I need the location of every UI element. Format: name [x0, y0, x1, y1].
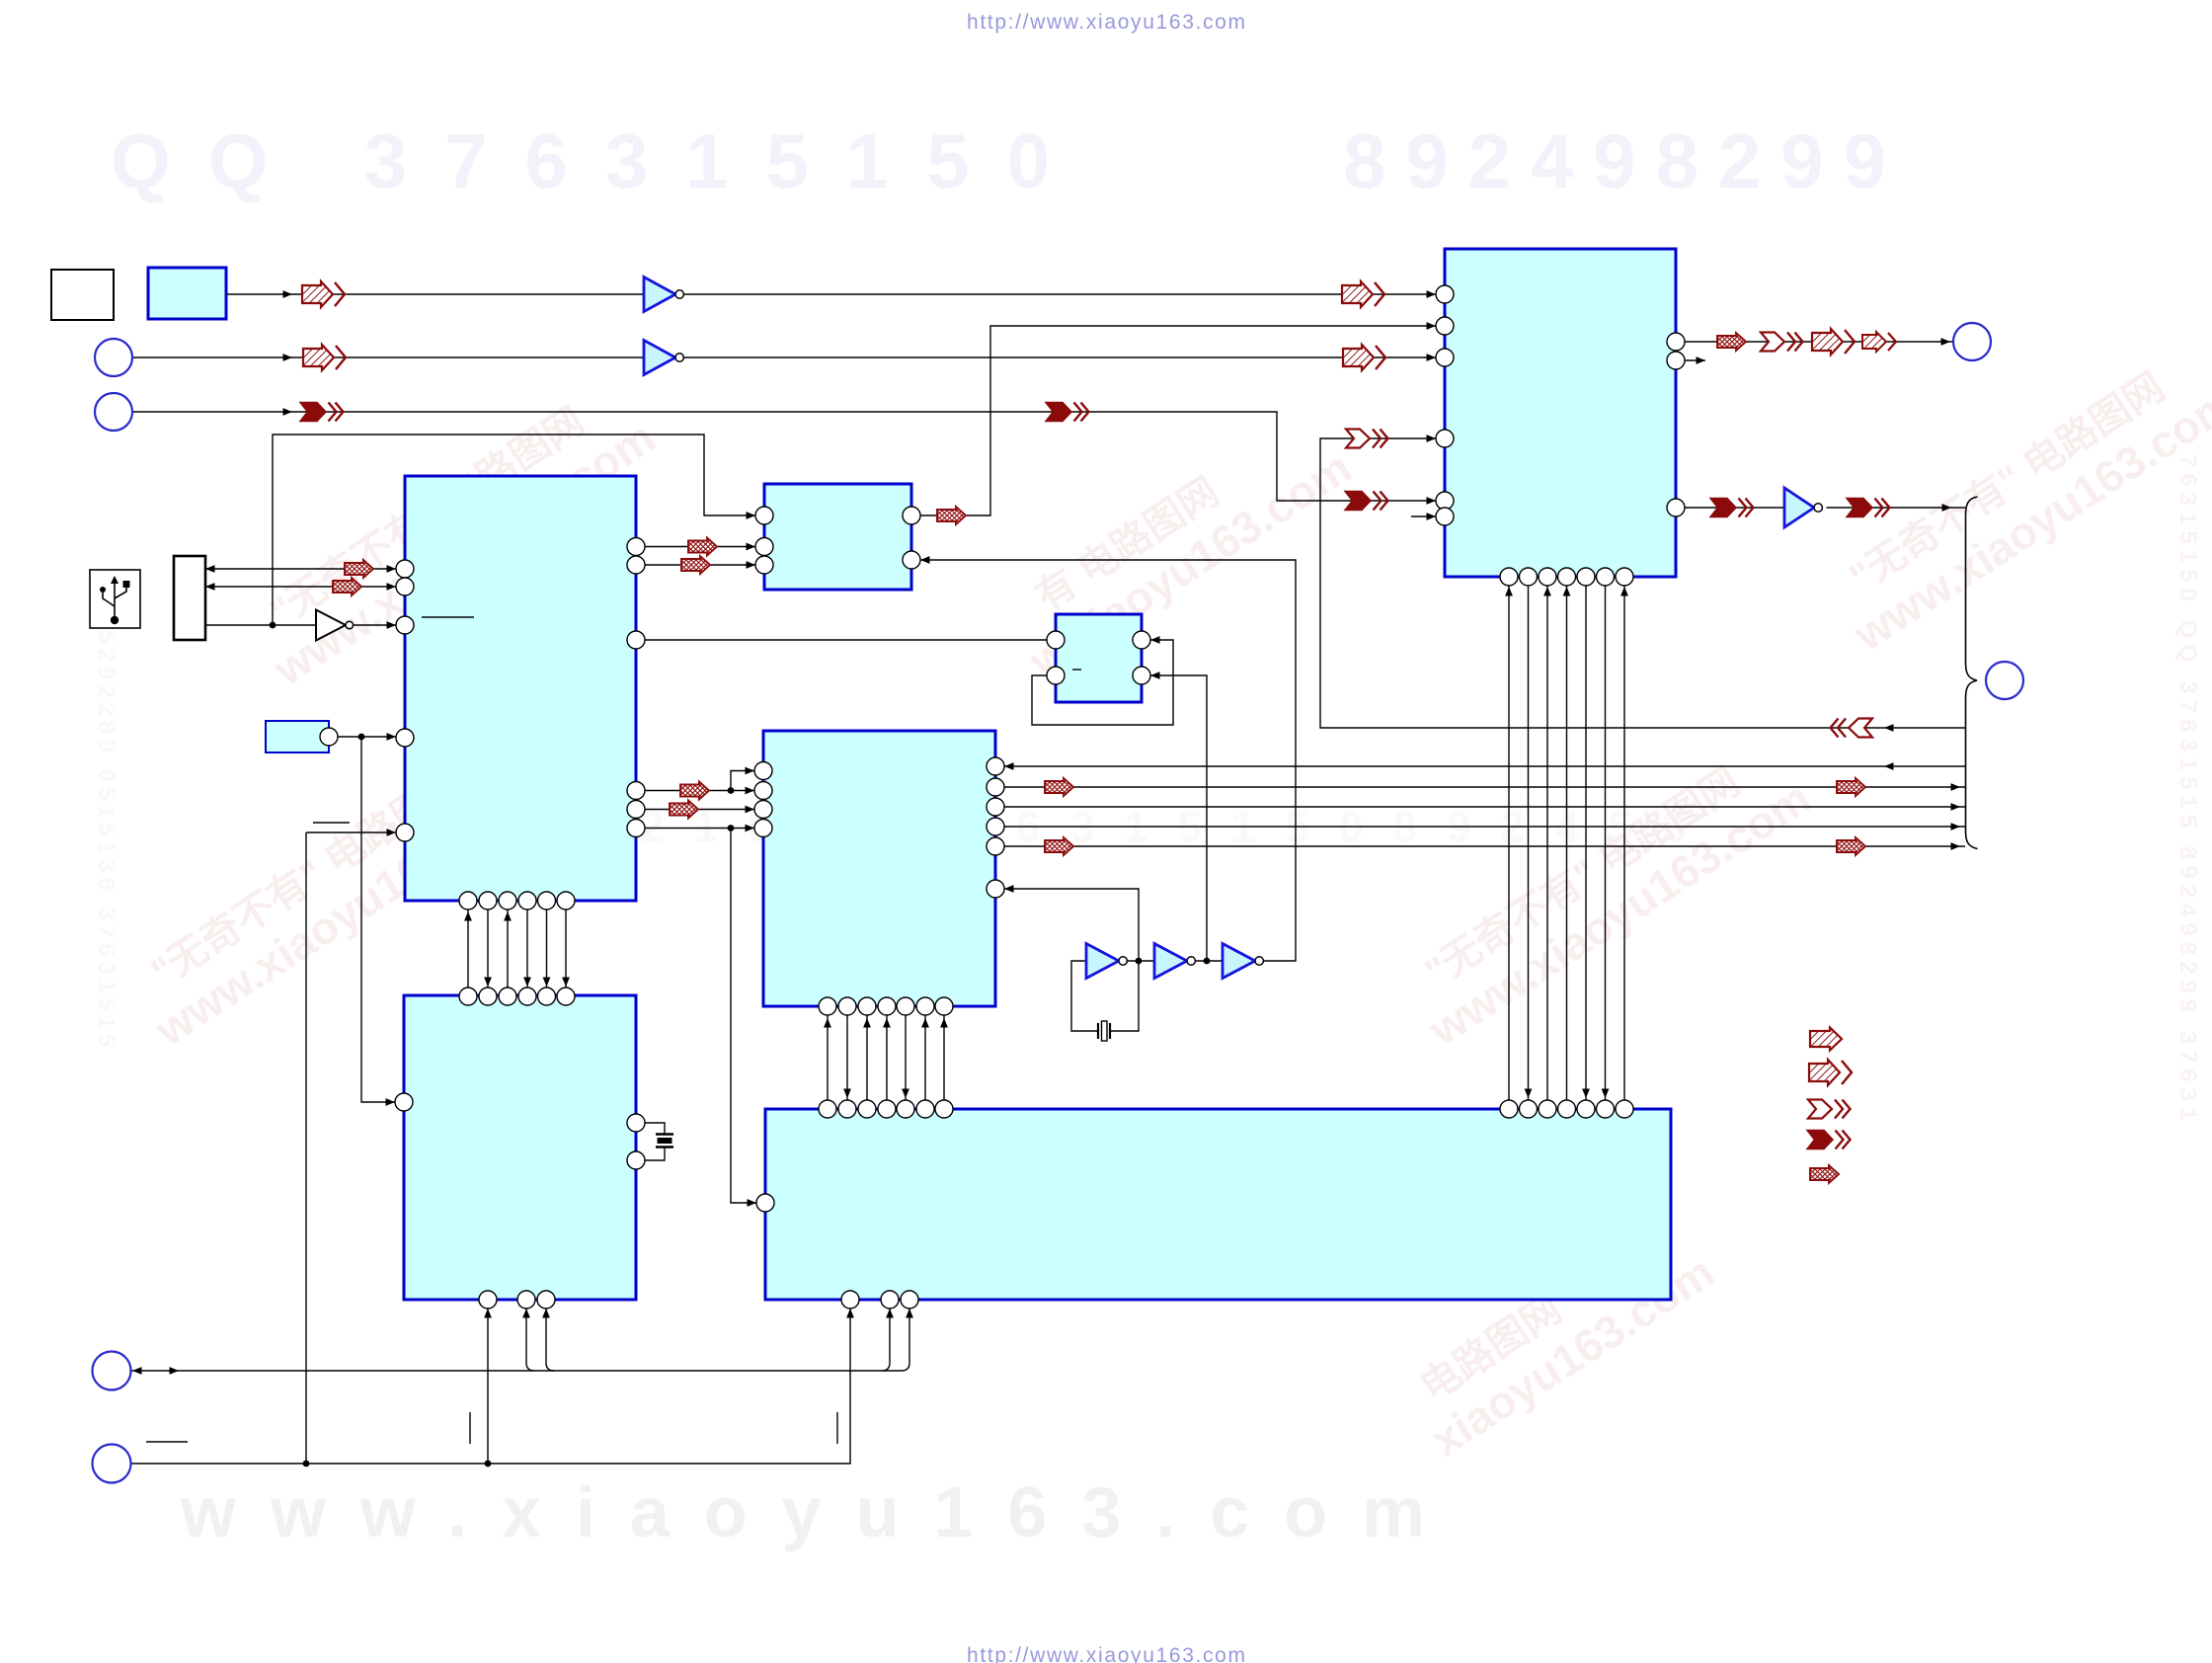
bus: 7 short verticals U5 to U7	[827, 1015, 829, 1100]
signal-flow arrow (hatched small) U3 output row	[1862, 332, 1896, 352]
watermark QQ number row (faint)	[111, 118, 1906, 204]
svg-text:QQ 376315150: QQ 376315150	[111, 118, 1093, 204]
wire: U1 to U2 pin2	[645, 546, 755, 548]
bus: 7 vertical lines U3 to U7	[1508, 586, 1510, 1100]
svg-text:http://www.xiaoyu163.com: http://www.xiaoyu163.com	[967, 11, 1245, 34]
signal-flow arrow (crosshatch) bus y797 left	[1045, 778, 1073, 796]
legend: hatched+chevron arrow	[1809, 1060, 1852, 1085]
connector circle P2	[95, 393, 132, 431]
pins of U4	[1047, 631, 1065, 649]
oscillator chain wires	[1128, 960, 1155, 962]
svg-text:www.xiaoyu163.com: www.xiaoyu163.com	[180, 1473, 1455, 1552]
wire: bus line to U3 pin4 and long feedback line	[1320, 438, 1965, 728]
wire: curved taps U7 pins to clock line	[882, 1308, 890, 1371]
wire: U5 lower pin to oscillator node	[1004, 889, 1139, 1031]
wire: U3 pin stub output	[1685, 359, 1705, 361]
signal-flow arrow (hatched+chevron) row A	[302, 281, 345, 307]
wire: USB D+ line J1 to U1	[205, 568, 396, 570]
signal-flow arrow (crosshatch) bus y857 right	[1837, 837, 1865, 855]
label overline inside U1 (active-low pin)	[422, 616, 474, 618]
connector circle P5 (bottom left lower)	[93, 1445, 131, 1483]
connector circle P3 (top right)	[1953, 323, 1991, 360]
label overline near circle P5	[146, 1441, 188, 1443]
block U5: center processor	[763, 731, 995, 1006]
signal-flow arrow (hatched+chevron) U3 output row	[1812, 329, 1855, 355]
legend: open chevron arrow	[1808, 1100, 1851, 1119]
wire: U6 pin1 down to ground line	[487, 1308, 489, 1464]
wire: U2 out pin to U3 pin2	[920, 326, 1436, 515]
inverter G2 row B	[644, 341, 675, 375]
wire: U1 to U2 pin3	[645, 564, 755, 566]
signal-flow arrow (crosshatch) U1-U5 row1	[680, 782, 709, 800]
pins of U2	[755, 507, 773, 524]
wire: curved taps U6 pins to clock line	[526, 1308, 534, 1371]
inverter G4 U3 lower output	[1784, 488, 1814, 527]
signal-flow arrow (crosshatch) bus y797 right	[1837, 778, 1865, 796]
signal-flow arrow (crosshatch) bus y857 left	[1045, 837, 1073, 855]
block U3: servo/DSP (top right large)	[1445, 249, 1676, 577]
bus: 6 short verticals U1 to U6	[467, 910, 469, 988]
wire: row B from connector circle P1 to U3 pin3 (via inverter)	[132, 356, 644, 358]
connector J1: tall USB connector	[174, 556, 205, 640]
block U4: small feedback module	[1056, 614, 1142, 702]
wire: USB data branch up to U2 pin1	[273, 435, 755, 625]
block U6: memory (bottom left)	[404, 995, 636, 1300]
white reference box top-left	[51, 270, 114, 320]
signal-flow arrow (hatched+chevron) into U3 pin3	[1343, 345, 1385, 370]
svg-text:892498299: 892498299	[1343, 118, 1906, 204]
wire: U3 output row to connector circle P3	[1685, 341, 1953, 343]
wire: U1 to U5 row y800.5 with branch to pin1	[645, 790, 754, 792]
pins of U6	[395, 1093, 413, 1111]
wire: clock line from circle P4 across bottom	[130, 1370, 902, 1372]
wire: corner line into U1 left pin5 and long drop	[306, 831, 396, 833]
wire: tiny module to U1 pin and down to U6	[338, 736, 396, 738]
signal-flow arrow (crosshatch) U3 output row	[1717, 333, 1746, 351]
wire: ground line from circle P5 across bottom up to U7	[130, 1308, 850, 1464]
pins of U7	[756, 1194, 774, 1212]
signal-flow arrow (open) into U3 pin4	[1346, 430, 1388, 448]
crystal X2 circuit on U6	[645, 1123, 665, 1134]
svg-text:65292289 0515136 37631515: 65292289 0515136 37631515	[93, 612, 119, 1052]
wire: U4 pin2 feedback down to oscillator node	[1150, 675, 1207, 961]
pins of U5	[754, 762, 772, 780]
bus wire y776 from U5 to brace	[1004, 765, 1965, 767]
label tick marks	[469, 1412, 471, 1444]
signal-flow arrow (crosshatch) on USB D+	[345, 560, 373, 578]
signal-flow arrow (solid) U3 lower out	[1710, 499, 1754, 517]
label line inside U4	[1072, 669, 1081, 671]
block U2: USB interface module	[764, 484, 911, 590]
wire: U3 lower output via inverter to brace	[1685, 507, 1784, 509]
svg-text:http://www.xiaoyu163.com: http://www.xiaoyu163.com	[967, 1644, 1245, 1663]
connector circle P6 (right mid)	[1986, 662, 2023, 699]
block: small top-left cyan module	[148, 268, 226, 319]
wire: U1 to U4 pin1	[645, 639, 1047, 641]
bus wire y837	[1004, 826, 1965, 828]
svg-text:76315150 QQ 37631515 892498: 76315150 QQ 37631515 892498299 37631	[2174, 454, 2201, 1126]
inverter G5 oscillator	[1086, 944, 1119, 979]
signal-flow arrow (left open chevrons) on feedback line	[1831, 719, 1873, 738]
signal-flow arrow (hatched+chevron) row B	[303, 345, 346, 370]
bus wire y797	[1004, 786, 1965, 788]
watermark diagonal stamps (faint pink)	[120, 338, 2212, 1466]
connector circle P4 (bottom left)	[93, 1352, 131, 1390]
signal-flow arrow (crosshatch) U1-U2 row1	[688, 538, 717, 556]
legend: solid arrow	[1807, 1131, 1851, 1149]
wire: oscillator output to U2 pin4	[920, 560, 1296, 961]
pin of tiny module	[320, 728, 338, 746]
signal-flow arrow (solid) row C mid	[1046, 403, 1089, 422]
legend: hatched arrow	[1810, 1028, 1842, 1051]
wire: stub into U3 pin6	[1411, 515, 1436, 517]
bus wire y817	[1004, 806, 1965, 808]
inverter G6 oscillator	[1154, 944, 1187, 979]
wire: U1 to U5 row y819.5	[645, 809, 754, 811]
wire: U1 to U5 row y838.5 with long branch down to U7	[645, 828, 754, 830]
signal-flow arrow (solid) row C	[300, 403, 344, 422]
wire: J1 sense line via inverter to U1	[205, 624, 316, 626]
brace collecting bus lines into P6	[1966, 497, 1978, 849]
wire: U4 loop pin1 around to left pin2	[1032, 640, 1173, 725]
pins of U3	[1436, 285, 1454, 303]
wire: row C from connector circle P2 to U3 pin5	[132, 412, 1436, 501]
signal-flow arrow (solid) into U3 pin5	[1345, 492, 1388, 511]
signal-flow arrow (open) U3 output row	[1761, 333, 1803, 352]
signal-flow arrow (crosshatch) U1-U5 row2	[670, 801, 698, 819]
signal-flow arrow (crosshatch) on USB D-	[333, 578, 361, 595]
inverter G3 USB sense (white)	[316, 610, 346, 641]
inverter G1 row A	[644, 277, 675, 312]
legend: crosshatch arrow	[1810, 1165, 1839, 1183]
USB icon	[90, 570, 140, 628]
block: tiny cyan reset module	[266, 721, 329, 752]
connector circle P1	[95, 339, 132, 376]
block U7: wide bottom module	[765, 1109, 1671, 1300]
wire: USB D- line J1 to U1	[205, 586, 396, 588]
signal-flow arrow (crosshatch) on U2 output	[937, 507, 966, 524]
signal-flow arrow (crosshatch) U1-U2 row2	[681, 556, 710, 574]
crystal X1	[1098, 1023, 1110, 1039]
wire: top row A from small module to U3 pin1 (via inverter)	[226, 293, 644, 295]
bus wire y857	[1004, 845, 1965, 847]
block U1: main controller (left large)	[405, 476, 636, 901]
inverter G7 oscillator	[1223, 944, 1255, 979]
label overline near U1 pin5	[313, 822, 350, 824]
signal-flow arrow (solid) after inverter	[1847, 499, 1890, 517]
pins of U1	[396, 560, 414, 578]
signal-flow arrow (hatched+chevron) into U3 pin1	[1342, 281, 1384, 307]
